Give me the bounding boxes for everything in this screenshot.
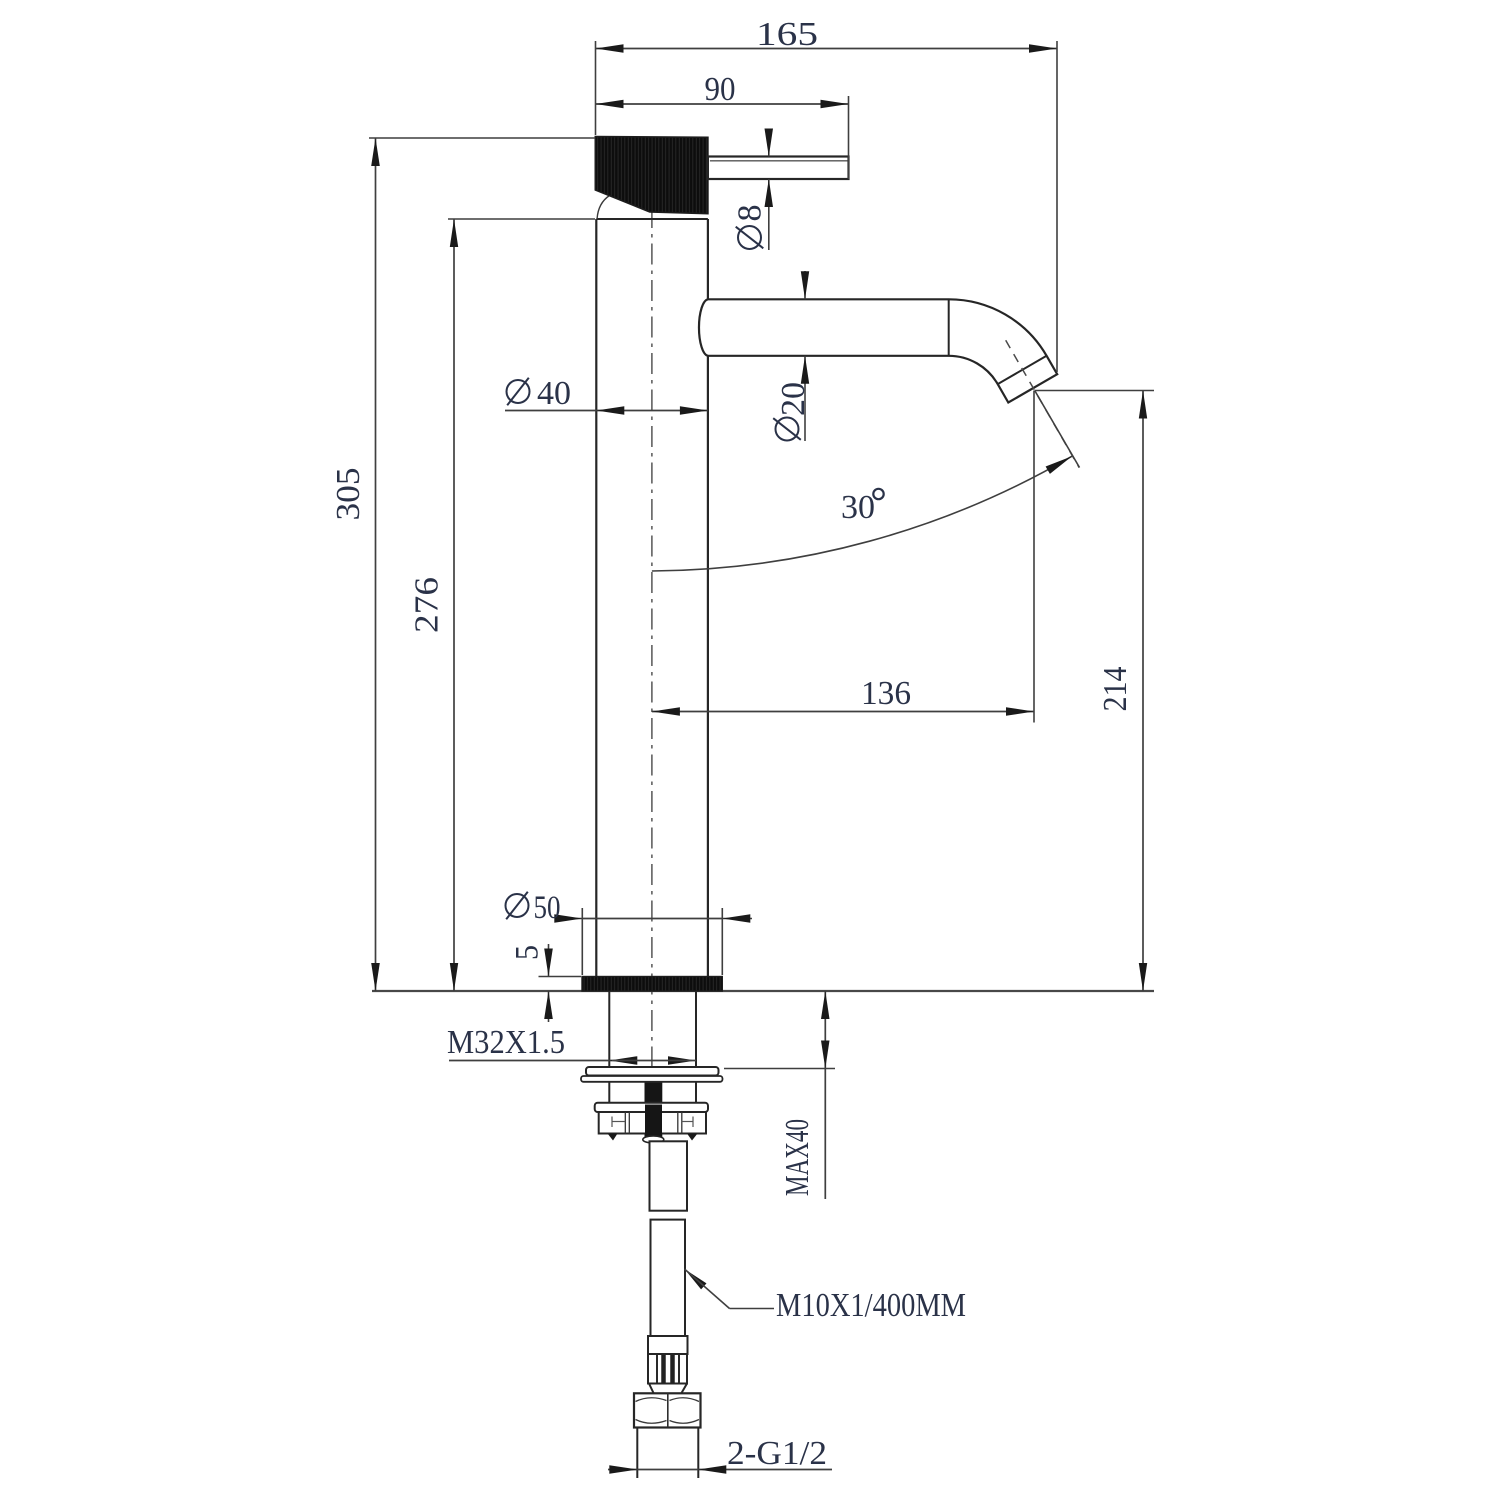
- svg-text:20: 20: [775, 382, 812, 416]
- svg-text:136: 136: [861, 675, 911, 712]
- svg-text:M10X1/400MM: M10X1/400MM: [776, 1287, 966, 1324]
- svg-text:276: 276: [409, 577, 446, 633]
- svg-text:M32X1.5: M32X1.5: [447, 1024, 565, 1061]
- svg-text:2-G1/2: 2-G1/2: [727, 1435, 827, 1472]
- svg-text:305: 305: [330, 468, 367, 521]
- svg-text:50: 50: [534, 890, 561, 926]
- svg-text:8: 8: [732, 205, 769, 222]
- svg-text:30: 30: [841, 489, 875, 526]
- svg-text:MAX40: MAX40: [779, 1119, 816, 1196]
- svg-text:5: 5: [510, 945, 546, 960]
- svg-text:40: 40: [537, 375, 571, 412]
- svg-text:165: 165: [756, 16, 818, 53]
- svg-text:214: 214: [1097, 667, 1134, 712]
- svg-text:90: 90: [705, 71, 736, 108]
